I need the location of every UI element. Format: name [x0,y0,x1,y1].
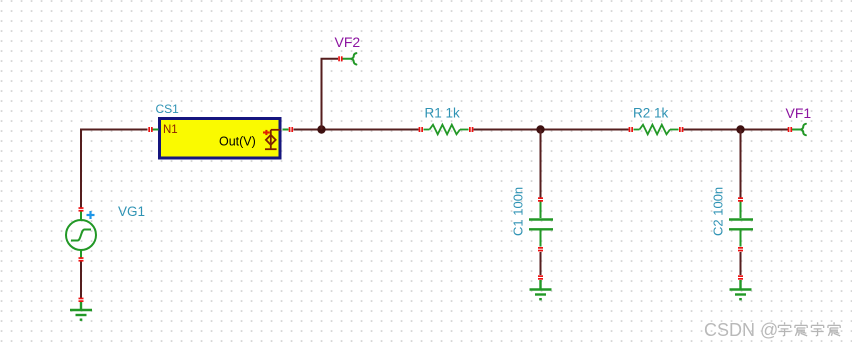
svg-text:C2 100n: C2 100n [711,187,726,236]
node junction at VF2 tap [317,125,325,133]
wire: junction up to VF2 [322,59,339,130]
pin marks: CS1 output [289,127,293,132]
svg-text:N1: N1 [163,124,178,136]
svg-text:CSDN @: CSDN @ [704,320,778,340]
resistor R2 [634,125,679,135]
CS1 output pin [283,129,289,131]
svg-text:CS1: CS1 [156,102,180,116]
CS1 input pin [153,129,159,131]
pin marks: C1 [538,197,543,251]
capacitor C2 [729,202,753,247]
node junction at C1 tap [536,125,544,133]
wire: CS1 output to R1 [294,129,419,131]
wire: C2 to ground [740,252,742,275]
pin marks: R2 [629,127,684,132]
svg-text:VF2: VF2 [335,34,361,50]
ground (below C2) [730,280,752,299]
CS1 controlled-source diamond symbol [265,130,281,149]
resistor R1 [424,125,469,135]
pin marks: ground (VG1) [79,298,84,302]
pin marks: VF1 [788,127,792,132]
wire: R2 to VF1 [684,129,789,131]
watermark CSDN [704,320,779,341]
svg-text:VF1: VF1 [786,105,812,121]
wire: VG1 top terminal up and right to CS1 input [81,130,148,209]
watermark chinese glyphs [778,322,840,336]
node junction at C2 tap [736,125,744,133]
pin marks: VG1 terminals [79,207,84,261]
pin marks: C2 [738,197,743,251]
capacitor C1 [529,202,553,247]
pin marks: CS1 input [148,127,152,132]
pin marks: ground (C1) [538,275,543,279]
voltage probe VF1 [792,124,806,135]
voltage source VG1 [66,211,96,258]
pin marks: R1 [419,127,474,132]
ground (below C1) [530,280,552,299]
pin marks: ground (C2) [738,275,743,279]
wire: VG1 bottom terminal down to ground [80,261,82,299]
VG1 polarity plus (blue) [87,211,95,219]
wire: junction down to C2 [740,130,742,199]
controlled source CS1 macro block [160,119,281,159]
wire: C1 to ground [540,252,542,275]
wire: R1 to R2 [474,129,629,131]
pin marks: VF2 [338,56,342,61]
svg-text:Out(V): Out(V) [219,134,256,148]
svg-text:R1 1k: R1 1k [425,106,461,121]
svg-text:R2 1k: R2 1k [633,106,669,121]
ground (below VG1) [70,208,92,320]
svg-text:C1 100n: C1 100n [511,187,526,236]
voltage probe VF2 [343,53,357,64]
wire: junction down to C1 [540,130,542,199]
svg-text:VG1: VG1 [118,204,145,219]
CS1 symbol plus sign (red) [263,130,270,135]
